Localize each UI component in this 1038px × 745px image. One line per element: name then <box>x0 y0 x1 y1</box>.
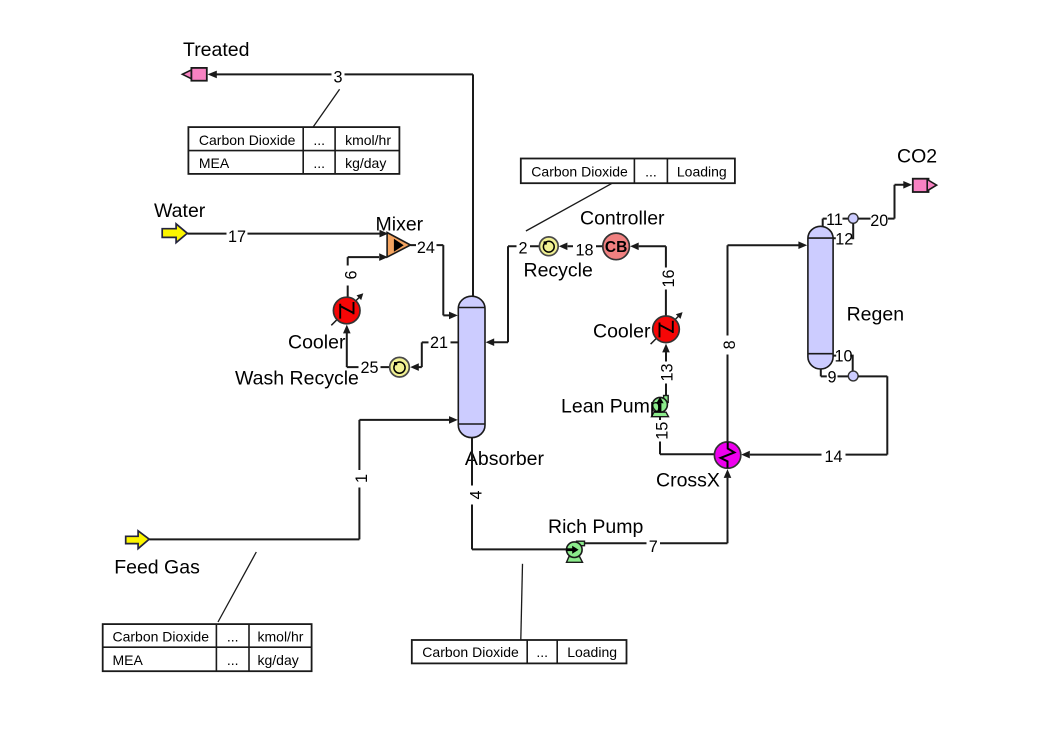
svg-text:kg/day: kg/day <box>345 155 386 171</box>
svg-text:10: 10 <box>834 348 852 366</box>
svg-text:4: 4 <box>467 490 485 499</box>
svg-text:Recycle: Recycle <box>524 259 593 281</box>
svg-text:25: 25 <box>360 359 378 377</box>
leader line to table stream 4 <box>521 564 523 640</box>
svg-text:Feed Gas: Feed Gas <box>114 557 200 579</box>
column Regen <box>808 226 833 369</box>
leader line to table stream 2 <box>526 183 612 231</box>
mixer Mixer <box>387 233 410 258</box>
svg-text:Loading: Loading <box>567 644 617 660</box>
svg-text:Regen: Regen <box>847 303 904 325</box>
svg-text:...: ... <box>313 132 325 148</box>
svg-text:...: ... <box>227 629 239 645</box>
svg-text:kmol/hr: kmol/hr <box>345 132 391 148</box>
svg-text:11: 11 <box>826 211 843 229</box>
wire stream 24 <box>411 245 458 319</box>
column Absorber <box>458 296 485 437</box>
cooler Cooler (wash) <box>331 293 363 325</box>
svg-text:Lean Pump: Lean Pump <box>561 395 661 417</box>
property table stream 1 <box>103 624 312 671</box>
svg-text:24: 24 <box>417 239 435 257</box>
source arrow Feed Gas <box>126 531 150 549</box>
svg-text:Controller: Controller <box>580 207 665 229</box>
wire stream 7 <box>584 469 732 543</box>
svg-text:CB: CB <box>605 239 627 256</box>
wire stream 25 <box>343 325 390 368</box>
svg-text:Carbon Dioxide: Carbon Dioxide <box>531 163 628 179</box>
svg-text:Absorber: Absorber <box>465 448 545 470</box>
svg-text:MEA: MEA <box>199 155 230 171</box>
svg-text:9: 9 <box>827 368 836 386</box>
wire stream 6 <box>348 253 388 297</box>
svg-text:17: 17 <box>228 228 246 246</box>
svg-text:18: 18 <box>575 241 593 259</box>
source arrow Water <box>162 224 187 243</box>
recycle block Recycle <box>539 237 558 256</box>
heat exchanger CrossX <box>714 442 740 468</box>
wire stream 20 <box>858 181 912 219</box>
property table stream 2 <box>521 159 735 184</box>
svg-text:8: 8 <box>721 340 739 349</box>
svg-text:13: 13 <box>658 363 676 381</box>
svg-text:21: 21 <box>430 334 448 352</box>
wire stream 8 <box>728 241 808 442</box>
svg-text:CO2: CO2 <box>897 146 937 168</box>
svg-text:2: 2 <box>518 240 527 258</box>
svg-text:Rich Pump: Rich Pump <box>548 516 644 538</box>
svg-text:kg/day: kg/day <box>258 652 299 668</box>
svg-text:...: ... <box>227 652 239 668</box>
svg-text:6: 6 <box>342 270 360 279</box>
svg-text:20: 20 <box>870 212 888 230</box>
wire stream 3 <box>208 71 474 297</box>
pump Lean Pump <box>652 396 669 417</box>
svg-text:15: 15 <box>653 422 671 440</box>
svg-text:Carbon Dioxide: Carbon Dioxide <box>113 629 210 645</box>
svg-text:MEA: MEA <box>113 652 144 668</box>
node connector (bottom) <box>848 371 858 381</box>
property table stream 3 <box>188 127 399 174</box>
sink arrow Treated <box>182 68 206 81</box>
wire stream 10 <box>833 356 853 372</box>
svg-text:3: 3 <box>333 68 342 86</box>
wire stream 13 <box>662 344 670 396</box>
svg-text:Treated: Treated <box>183 39 249 61</box>
wire stream 11 <box>823 219 849 227</box>
leader line to table stream 3 <box>313 89 339 127</box>
property table stream 4 <box>412 640 627 663</box>
controller CB <box>603 233 630 260</box>
svg-text:Mixer: Mixer <box>376 214 424 236</box>
wire stream 12 <box>833 223 853 238</box>
svg-text:...: ... <box>536 644 548 660</box>
wire stream 16 <box>630 243 666 317</box>
svg-text:...: ... <box>645 163 657 179</box>
wire stream 15 <box>660 417 715 455</box>
svg-text:kmol/hr: kmol/hr <box>258 629 304 645</box>
svg-text:Cooler: Cooler <box>593 320 651 342</box>
svg-text:16: 16 <box>660 269 678 287</box>
svg-text:Water: Water <box>154 200 206 222</box>
svg-text:14: 14 <box>824 448 842 466</box>
svg-text:CrossX: CrossX <box>656 469 720 491</box>
svg-text:Wash Recycle: Wash Recycle <box>235 367 359 389</box>
leader line to table stream 1 <box>218 552 256 622</box>
cooler Cooler (lean) <box>651 312 683 344</box>
wire stream 17 <box>188 230 389 238</box>
pump Rich Pump <box>566 541 585 562</box>
wire stream 21 <box>410 342 458 371</box>
wire stream 9 to 14 <box>858 375 887 377</box>
svg-text:...: ... <box>313 155 325 171</box>
wire stream 9 <box>821 369 849 376</box>
wire stream 18 <box>559 243 603 251</box>
svg-text:Loading: Loading <box>677 163 727 179</box>
recycle block Wash Recycle <box>390 357 410 377</box>
svg-text:12: 12 <box>835 231 853 249</box>
node connector (top) <box>848 214 858 224</box>
wire stream 2 <box>486 246 540 346</box>
svg-text:Carbon Dioxide: Carbon Dioxide <box>422 644 519 660</box>
wire stream 14 <box>741 376 887 458</box>
svg-text:7: 7 <box>649 538 658 556</box>
wire stream 4 <box>472 438 566 550</box>
svg-text:Cooler: Cooler <box>288 331 346 353</box>
svg-text:Carbon Dioxide: Carbon Dioxide <box>199 132 296 148</box>
sink arrow CO2 <box>913 179 937 192</box>
wire stream 1 <box>149 416 457 539</box>
svg-text:1: 1 <box>353 474 371 483</box>
